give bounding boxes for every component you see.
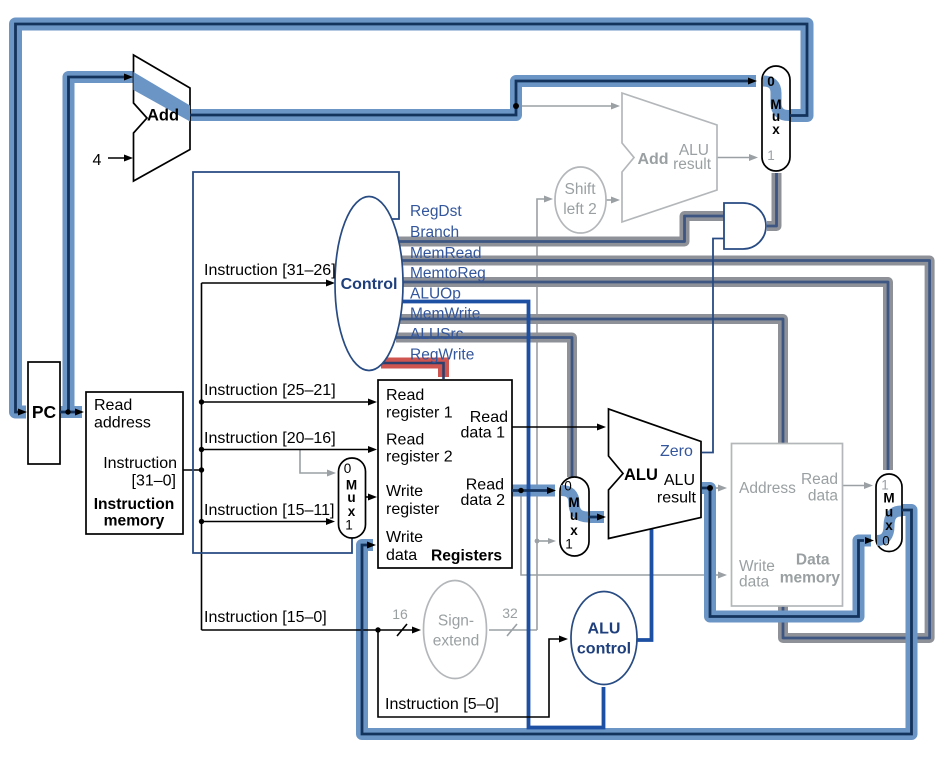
svg-text:ALUSrc: ALUSrc	[410, 326, 464, 343]
node bus tap Instruction[25-21]	[199, 399, 204, 404]
svg-text:RegDst: RegDst	[410, 203, 462, 220]
register PC	[28, 362, 60, 464]
svg-text:register: register	[386, 501, 440, 518]
wire constant 4 to Add	[108, 157, 126, 159]
svg-text:Control: Control	[341, 276, 398, 293]
control line Branch band to AND gate	[392, 216, 725, 242]
svg-text:Read: Read	[386, 387, 424, 404]
svg-text:Read: Read	[94, 397, 132, 414]
wire data memory read data to MemtoReg mux input 1	[843, 485, 866, 487]
control line ALUSrc core	[396, 338, 572, 478]
svg-text:Write: Write	[739, 558, 775, 575]
registers block	[378, 380, 512, 568]
wire sign-extend output	[489, 629, 537, 631]
svg-text:0: 0	[882, 534, 890, 549]
control line RegDst routed around left to RegDst mux select	[193, 172, 399, 553]
wire band PC to instruction memory	[60, 406, 82, 418]
svg-text:4: 4	[93, 152, 102, 169]
svg-text:Instruction [25–21]: Instruction [25–21]	[204, 382, 336, 399]
svg-text:Instruction: Instruction	[103, 455, 177, 472]
svg-text:Sign-: Sign-	[438, 613, 474, 630]
LAYER: thin gray wires	[300, 106, 865, 636]
wire Instruction[15-11] to RegDst mux input 1	[202, 521, 328, 523]
LAYER: text	[32, 107, 697, 714]
svg-text:Read: Read	[466, 477, 504, 494]
instruction memory	[86, 392, 183, 534]
control line MemRead band to data memory bottom	[394, 261, 930, 639]
svg-text:address: address	[94, 415, 151, 432]
svg-text:ALU: ALU	[624, 466, 658, 484]
svg-text:left 2: left 2	[563, 201, 597, 218]
adder Add ALU result (branch, inactive gray)	[622, 93, 717, 222]
svg-text:data: data	[808, 488, 839, 505]
svg-text:Zero: Zero	[660, 443, 693, 460]
svg-text:ALU: ALU	[664, 472, 695, 489]
control line MemtoReg band to right mux select	[394, 282, 888, 470]
svg-text:register 2: register 2	[386, 449, 453, 466]
wire Zero flag from ALU to AND gate	[702, 239, 724, 453]
svg-text:1: 1	[345, 518, 353, 533]
svg-text:Instruction [15–11]: Instruction [15–11]	[204, 502, 334, 519]
wire band PCSrc mux output loop back to PC	[16, 24, 808, 412]
svg-text:Read: Read	[386, 432, 424, 449]
node PC output junction	[65, 409, 70, 414]
svg-text:data: data	[739, 574, 770, 591]
svg-text:memory: memory	[104, 513, 165, 530]
svg-text:Instruction [15–0]: Instruction [15–0]	[204, 609, 327, 626]
svg-text:Instruction [31–26]: Instruction [31–26]	[204, 262, 336, 279]
wire band PC+4 from Add to PCSrc mux input 0	[190, 81, 756, 115]
svg-text:control: control	[577, 641, 631, 658]
svg-text:[31–0]: [31–0]	[132, 473, 176, 490]
svg-text:memory: memory	[780, 570, 841, 587]
core PCSrc mux output loop to PC	[16, 24, 808, 412]
wire Instruction[15-0] to sign-extend	[202, 629, 415, 631]
core read data 2	[512, 489, 547, 492]
gray arrowheads	[327, 103, 873, 579]
core PC up to Add	[69, 77, 125, 412]
wire band PC value up to Add	[69, 77, 134, 412]
core PC+4 to PCSrc mux	[190, 81, 748, 115]
svg-text:PC: PC	[32, 402, 57, 422]
svg-text:extend: extend	[433, 633, 480, 650]
wire instruction memory output	[183, 469, 202, 471]
svg-text:Read: Read	[470, 409, 508, 426]
adder Add (PC+4)	[134, 55, 191, 181]
svg-text:Instruction: Instruction	[94, 496, 175, 513]
LAYER: navy thin control wires	[193, 172, 724, 553]
svg-text:1: 1	[565, 537, 573, 552]
wire shift-left-2 output to branch adder bottom input	[606, 199, 612, 201]
control line ALUSrc band to ALUSrc mux select	[396, 338, 572, 478]
wire RegDst mux output to write register	[366, 496, 370, 498]
wire Instruction[5-0] to ALU control	[378, 630, 561, 717]
AND gate (branch)	[724, 203, 766, 249]
mux ALUSrc	[560, 477, 589, 556]
svg-text:Instruction [5–0]: Instruction [5–0]	[385, 696, 499, 713]
svg-text:Address: Address	[739, 480, 796, 497]
AND gate output core	[767, 173, 777, 226]
node read data 2 junction	[518, 488, 523, 493]
wire band read data 2 to ALUSrc mux input 0	[512, 485, 555, 497]
svg-text:Shift: Shift	[564, 181, 596, 198]
svg-text:Write: Write	[386, 483, 423, 500]
svg-text:data 1: data 1	[461, 425, 506, 442]
control line MemRead core	[394, 261, 930, 639]
svg-text:data: data	[386, 547, 417, 564]
node Instruction[15-0] junction	[375, 627, 380, 632]
band through Add adder	[134, 72, 191, 122]
gray labels	[392, 142, 840, 650]
svg-text:RegWrite: RegWrite	[410, 347, 474, 364]
control line MemWrite core	[396, 319, 783, 444]
blue control labels	[341, 203, 693, 658]
wire instruction bus vertical	[201, 283, 203, 630]
control line MemtoReg core	[394, 282, 888, 470]
core arrowheads	[18, 74, 874, 549]
node PC+4 tap junction	[513, 103, 519, 109]
wire ALU result to data memory address	[710, 487, 719, 489]
svg-text:MemtoReg: MemtoReg	[410, 265, 486, 282]
LAYER: gray highlight bands (active control lines)	[392, 173, 930, 638]
control line RegWrite core	[381, 363, 444, 379]
node bus tap instruction output	[199, 467, 204, 472]
node ALU result junction	[707, 485, 713, 491]
wire branch to ALUSrc mux input 1	[537, 540, 550, 542]
svg-text:result: result	[673, 156, 712, 173]
ALU main	[609, 409, 702, 539]
svg-text:Data: Data	[796, 552, 830, 569]
wire Instruction[31-26] to Control	[202, 282, 329, 284]
wire sign-extend feed up to shift-left-2	[537, 199, 545, 630]
node bus tap Instruction[20-16]	[199, 447, 204, 452]
wire read data 2 branch down to data memory write data	[521, 491, 719, 576]
svg-text:result: result	[657, 490, 697, 507]
AND gate output band to PCSrc mux select	[767, 173, 777, 226]
core MemtoReg mux output write-back	[362, 510, 912, 734]
mux MemtoReg (right)	[876, 474, 902, 552]
svg-text:Registers: Registers	[431, 548, 502, 565]
sign-extend oval (gray)	[424, 581, 487, 679]
slash 16-bit width mark	[397, 624, 407, 636]
wire PC+4 tap to branch adder top input	[516, 105, 612, 107]
band inside ALUSrc mux	[561, 491, 588, 518]
ALU control output line up to ALU	[637, 527, 652, 640]
svg-text:Branch: Branch	[410, 224, 459, 241]
svg-text:register 1: register 1	[386, 405, 453, 422]
core PC to instruction memory	[60, 411, 75, 414]
wire read data 1 to ALU	[512, 426, 598, 428]
mux RegDst	[339, 458, 366, 538]
core ALU result loop	[702, 488, 864, 617]
svg-text:0: 0	[344, 461, 352, 476]
data memory (inactive gray)	[732, 444, 843, 607]
svg-text:x: x	[885, 518, 893, 533]
band inside MemtoReg mux	[877, 511, 901, 541]
black arrowheads	[124, 155, 606, 643]
wire Instruction[25-21] to read register 1	[202, 401, 371, 403]
svg-text:ALUOp: ALUOp	[410, 286, 461, 303]
svg-text:32: 32	[502, 605, 518, 621]
svg-text:ALU: ALU	[588, 621, 621, 638]
svg-text:x: x	[772, 122, 780, 137]
wire Instruction[20-16] to read register 2	[202, 449, 371, 451]
wire band MemtoReg mux output back to registers write data	[362, 510, 912, 734]
svg-text:Read: Read	[801, 471, 838, 488]
labels on muxes	[344, 74, 895, 552]
wire Instruction[20-16] gray branch to RegDst mux input 0	[300, 450, 328, 474]
svg-text:Write: Write	[386, 529, 423, 546]
svg-text:MemRead: MemRead	[410, 245, 482, 262]
svg-text:MemWrite: MemWrite	[410, 306, 480, 323]
node bus tap Instruction[15-11]	[199, 519, 204, 524]
shift left 2 oval (gray)	[555, 167, 606, 233]
svg-text:0: 0	[564, 479, 572, 494]
core ALUSrc mux output	[588, 516, 597, 519]
ALU control oval	[571, 592, 637, 685]
svg-text:16: 16	[392, 606, 408, 622]
LAYER: black thin wires	[108, 158, 598, 717]
band inside PCSrc mux	[763, 81, 789, 116]
control line ALUOp (royal blue) to ALU control	[394, 302, 604, 728]
svg-text:Add: Add	[637, 151, 668, 168]
wire band ALU result around data memory to MemtoReg mux input 0	[702, 488, 871, 617]
control line RegWrite red highlight band	[381, 363, 444, 377]
svg-text:Add: Add	[147, 107, 179, 125]
wire branch adder output to PCSrc mux input 1	[717, 157, 750, 159]
svg-text:u: u	[347, 490, 355, 505]
control unit oval	[335, 197, 403, 371]
control line Branch core	[392, 216, 725, 242]
svg-text:Instruction [20–16]: Instruction [20–16]	[204, 430, 336, 447]
svg-text:1: 1	[767, 148, 775, 163]
svg-text:M: M	[883, 491, 894, 506]
control line MemWrite band to data memory top	[396, 319, 783, 444]
wire band ALUSrc mux output to ALU	[588, 511, 604, 523]
svg-text:u: u	[570, 508, 578, 523]
svg-text:data 2: data 2	[461, 492, 506, 509]
slash 32-bit width mark	[507, 624, 517, 636]
svg-text:0: 0	[767, 74, 775, 89]
mux PCSrc (top right)	[762, 66, 790, 171]
